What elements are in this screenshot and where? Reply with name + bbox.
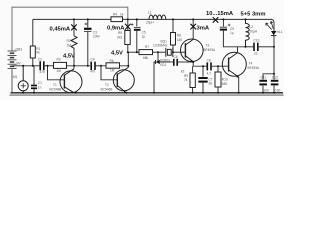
capacitor C10 bbox=[254, 43, 258, 51]
svg-text:100: 100 bbox=[275, 88, 281, 92]
junction dots bbox=[22, 18, 275, 93]
wire VT4 emitter to ground bbox=[238, 77, 240, 93]
resistor R6 bbox=[106, 63, 120, 68]
svg-text:47n: 47n bbox=[90, 69, 96, 73]
transistor VT3 bbox=[181, 39, 204, 62]
wire R8 branch bbox=[172, 19, 174, 32]
svg-text:C2: C2 bbox=[38, 57, 42, 61]
wire crystal to VT3 base bbox=[173, 51, 185, 53]
capacitor C5 electrolytic bbox=[136, 19, 138, 26]
svg-text:C8: C8 bbox=[207, 59, 211, 63]
wire split to C11 C12 bbox=[263, 74, 274, 80]
svg-text:C11: C11 bbox=[261, 76, 267, 80]
svg-text:1k: 1k bbox=[120, 13, 124, 17]
wire LED chain down bbox=[273, 36, 275, 74]
capacitor C9 electrolytic bbox=[222, 19, 224, 26]
svg-text:BC546B: BC546B bbox=[101, 88, 113, 92]
svg-text:4,7: 4,7 bbox=[207, 72, 212, 76]
wire R2 branch: rail to X to zigzag bbox=[73, 19, 75, 35]
svg-text:T4: T4 bbox=[249, 62, 253, 66]
measurement X marker on rail bbox=[213, 17, 219, 23]
wire VT2 base bbox=[101, 66, 117, 80]
wire VT2 collector up through node to R5 bbox=[127, 52, 129, 67]
wire R5 branch bbox=[127, 19, 129, 30]
ground rail bbox=[11, 92, 284, 94]
svg-text:20µH: 20µH bbox=[146, 21, 154, 25]
wire C9 bottom to collector bus bbox=[223, 31, 245, 47]
wire signal bus y=65.8 left segment bbox=[12, 65, 39, 67]
capacitor C3 electrolytic bbox=[87, 19, 89, 27]
svg-text:47n: 47n bbox=[40, 70, 46, 74]
svg-text:1n: 1n bbox=[38, 86, 42, 90]
svg-text:5+5 3mm: 5+5 3mm bbox=[241, 12, 266, 18]
wire R1 bottom to node bbox=[32, 58, 34, 66]
svg-text:GB1: GB1 bbox=[16, 47, 23, 51]
capacitor C1 bbox=[31, 86, 37, 89]
svg-text:C12: C12 bbox=[272, 76, 278, 80]
microphone M1 bbox=[18, 66, 28, 93]
svg-text:C4: C4 bbox=[91, 57, 95, 61]
resistor R3 bbox=[54, 62, 67, 68]
svg-text:L2: L2 bbox=[250, 25, 254, 29]
wire rail corner to LED chain bbox=[271, 19, 274, 31]
svg-text:BF493A: BF493A bbox=[204, 48, 216, 52]
LED HL1 bbox=[271, 31, 276, 35]
svg-text:T1: T1 bbox=[53, 83, 57, 87]
capacitor C6 bbox=[160, 61, 173, 63]
svg-text:22: 22 bbox=[254, 52, 258, 56]
capacitor C11 bbox=[259, 81, 267, 85]
svg-text:R8: R8 bbox=[177, 33, 181, 37]
svg-text:100n: 100n bbox=[93, 35, 100, 39]
svg-text:T3: T3 bbox=[206, 44, 210, 48]
svg-text:R2: R2 bbox=[67, 39, 71, 43]
svg-text:3mA: 3mA bbox=[197, 26, 210, 32]
transistor VT4 bbox=[222, 52, 246, 77]
svg-text:10...15mA: 10...15mA bbox=[206, 11, 234, 17]
wire R2 bottom to collector node bbox=[73, 50, 75, 69]
svg-text:4,5V: 4,5V bbox=[111, 51, 123, 57]
svg-text:C10: C10 bbox=[254, 38, 260, 42]
svg-text:0,45mA: 0,45mA bbox=[50, 27, 71, 33]
svg-text:100: 100 bbox=[264, 88, 270, 92]
svg-text:7k: 7k bbox=[184, 78, 188, 82]
capacitor C4 bbox=[91, 62, 95, 70]
svg-text:R7: R7 bbox=[145, 45, 149, 49]
svg-text:36: 36 bbox=[209, 82, 213, 86]
capacitor C7 bbox=[202, 66, 204, 76]
wire bottom border bbox=[10, 94, 284, 96]
wire R1 riser bbox=[32, 19, 34, 46]
resistor R7 bbox=[139, 50, 153, 55]
measurement X marker bbox=[125, 24, 131, 30]
svg-text:R4: R4 bbox=[113, 13, 117, 17]
svg-text:BC548B: BC548B bbox=[50, 88, 62, 92]
node: supply rail bbox=[33, 18, 272, 20]
capacitor C2 bbox=[40, 61, 44, 70]
wire VT3 collector to rail with 3mA X bbox=[192, 19, 194, 39]
svg-text:82: 82 bbox=[181, 69, 185, 73]
resistor R2 zigzag bbox=[71, 36, 77, 50]
transistor VT2 bbox=[113, 68, 134, 93]
wire emitter bus to VT4 base bbox=[193, 65, 228, 67]
svg-text:BF493A: BF493A bbox=[248, 66, 260, 70]
svg-text:2M: 2M bbox=[57, 69, 62, 73]
svg-text:R3: R3 bbox=[57, 58, 61, 62]
resistor R4 bbox=[111, 17, 123, 22]
resistor R5 bbox=[125, 31, 130, 45]
resistor R8 bbox=[171, 33, 176, 46]
capacitor C12 bbox=[271, 81, 279, 85]
wire 4.5V node to R7 bbox=[128, 51, 139, 53]
svg-text:1µ: 1µ bbox=[230, 31, 234, 35]
wire VT4 collector riser bbox=[237, 47, 239, 53]
svg-text:T2: T2 bbox=[105, 83, 109, 87]
svg-text:C1: C1 bbox=[38, 81, 42, 85]
svg-text:4,5V: 4,5V bbox=[63, 54, 75, 60]
wire C3 bottom to signal bus bbox=[87, 32, 89, 66]
svg-text:M1: M1 bbox=[13, 75, 18, 79]
svg-text:R5: R5 bbox=[118, 31, 122, 35]
measurement X marker bbox=[71, 24, 77, 30]
svg-text:680: 680 bbox=[222, 82, 228, 86]
capacitor C8 bbox=[207, 62, 211, 70]
svg-text:VD1: VD1 bbox=[160, 63, 166, 67]
svg-text:9k: 9k bbox=[36, 50, 40, 54]
svg-text:C6: C6 bbox=[174, 55, 178, 59]
diode VD1 bbox=[157, 52, 159, 62]
wire R7 to crystal bbox=[153, 51, 166, 53]
svg-text:R6: R6 bbox=[110, 59, 114, 63]
wire VT1 base bbox=[48, 66, 65, 80]
svg-text:0,9mA: 0,9mA bbox=[107, 26, 125, 32]
battery GB1 bbox=[8, 51, 17, 93]
svg-text:9k1: 9k1 bbox=[117, 36, 122, 40]
svg-text:1µ: 1µ bbox=[142, 34, 146, 38]
resistor R9 bbox=[192, 66, 194, 73]
resistor R10 bbox=[217, 66, 219, 72]
svg-text:68k: 68k bbox=[143, 56, 149, 60]
wire R3 right to collector node bbox=[67, 65, 91, 67]
wire VT3 emitter node bbox=[192, 62, 194, 67]
inductor L1 bbox=[149, 15, 166, 19]
svg-text:13.56MHz: 13.56MHz bbox=[153, 43, 168, 47]
svg-text:160: 160 bbox=[177, 38, 183, 42]
transistor VT1 bbox=[60, 69, 82, 93]
inductor L2 bbox=[246, 19, 250, 46]
svg-text:20µH: 20µH bbox=[250, 30, 258, 34]
svg-text:HL1: HL1 bbox=[277, 30, 283, 34]
resistor R1 bbox=[30, 46, 35, 58]
crystal BQ1 bbox=[166, 48, 173, 57]
svg-text:1M: 1M bbox=[67, 44, 72, 48]
svg-text:L1: L1 bbox=[148, 10, 152, 14]
svg-text:1M: 1M bbox=[110, 69, 115, 73]
svg-text:9V: 9V bbox=[17, 62, 22, 66]
wire battery plus riser and top supply wire bbox=[12, 7, 128, 51]
